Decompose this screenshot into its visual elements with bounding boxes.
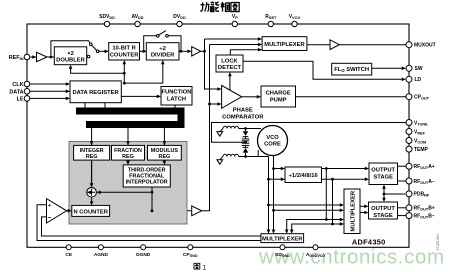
svg-text:MULTIPLEXER: MULTIPLEXER bbox=[264, 42, 305, 48]
svg-text:COMPARATOR: COMPARATOR bbox=[222, 114, 264, 120]
svg-text:FUNCTION: FUNCTION bbox=[162, 90, 192, 96]
svg-text:N COUNTER: N COUNTER bbox=[73, 209, 108, 215]
svg-text:VCO: VCO bbox=[266, 135, 279, 141]
svg-text:TEMP: TEMP bbox=[414, 147, 429, 153]
svg-text:DATA REGISTER: DATA REGISTER bbox=[72, 90, 119, 96]
svg-text:DIVIDER: DIVIDER bbox=[151, 53, 175, 59]
svg-text:PHASE: PHASE bbox=[233, 108, 253, 114]
svg-text:STAGE: STAGE bbox=[373, 174, 393, 180]
svg-text:PUMP: PUMP bbox=[270, 98, 287, 104]
svg-text:CLK: CLK bbox=[12, 82, 23, 88]
svg-text:FLO SWITCH: FLO SWITCH bbox=[334, 67, 369, 73]
svg-text:DATA: DATA bbox=[9, 89, 23, 95]
svg-text:÷1/2/4/8/16: ÷1/2/4/8/16 bbox=[289, 173, 319, 179]
svg-text:LATCH: LATCH bbox=[167, 96, 186, 102]
svg-text:STAGE: STAGE bbox=[373, 213, 393, 219]
svg-text:×2: ×2 bbox=[67, 51, 74, 57]
svg-text:REG: REG bbox=[86, 154, 98, 160]
svg-text:OUTPUT: OUTPUT bbox=[371, 168, 395, 174]
svg-text:INTERPOLATOR: INTERPOLATOR bbox=[126, 180, 168, 186]
svg-text:DETECT: DETECT bbox=[218, 65, 242, 71]
svg-text:LOCK: LOCK bbox=[221, 58, 238, 64]
svg-text:MULTIPLEXER: MULTIPLEXER bbox=[262, 237, 303, 243]
svg-text:10-BIT R: 10-BIT R bbox=[112, 46, 136, 52]
svg-text:−: − bbox=[48, 215, 52, 222]
svg-text:OUTPUT: OUTPUT bbox=[371, 206, 395, 212]
svg-text:AGND: AGND bbox=[94, 252, 109, 258]
svg-text:SW: SW bbox=[415, 66, 423, 72]
svg-text:DOUBLER: DOUBLER bbox=[56, 58, 85, 64]
svg-text:+: + bbox=[48, 203, 51, 209]
svg-text:ADF4350: ADF4350 bbox=[352, 238, 386, 247]
svg-text:DGND: DGND bbox=[136, 252, 151, 258]
svg-text:MULTIPLEXER: MULTIPLEXER bbox=[350, 190, 356, 231]
svg-text:LE: LE bbox=[17, 96, 24, 102]
svg-text:LD: LD bbox=[415, 77, 422, 83]
svg-text:REG: REG bbox=[122, 154, 134, 160]
svg-text:COUNTER: COUNTER bbox=[110, 53, 139, 59]
svg-text:REFIN: REFIN bbox=[9, 55, 24, 61]
svg-text:MUXOUT: MUXOUT bbox=[414, 43, 436, 49]
svg-text:REG: REG bbox=[159, 154, 171, 160]
svg-text:CORE: CORE bbox=[264, 142, 281, 148]
svg-text:CE: CE bbox=[65, 252, 72, 258]
svg-text:CHARGE: CHARGE bbox=[266, 91, 291, 97]
svg-text:1: 1 bbox=[203, 265, 207, 272]
svg-text:07105-001: 07105-001 bbox=[436, 234, 440, 251]
svg-text:÷2: ÷2 bbox=[159, 46, 165, 52]
